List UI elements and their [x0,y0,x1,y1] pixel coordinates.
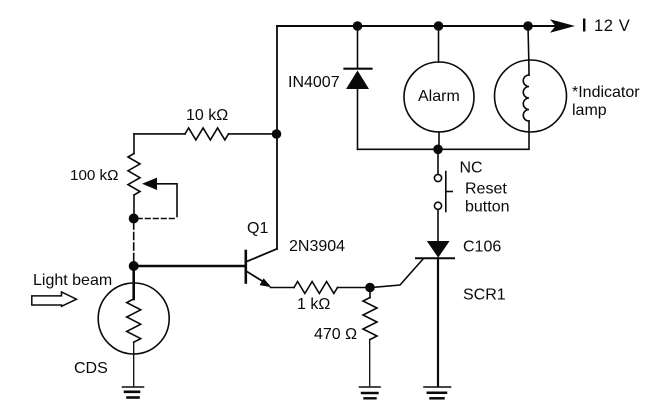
indicator lamp L1 (circle with filament coil) [495,26,641,149]
node junction 10k-collector [272,129,282,139]
node junction 1k-470-gate [365,283,375,293]
node junction rail-diode [353,21,363,31]
alarm device (circle) [404,26,474,149]
svg-text:470 Ω: 470 Ω [314,326,357,343]
svg-text:NC: NC [460,160,483,177]
svg-text:10 kΩ: 10 kΩ [186,107,228,124]
wire pot to base node [133,222,135,262]
reset button S1 (NC pushbutton) [434,149,509,241]
svg-text:IN4007: IN4007 [288,74,340,91]
svg-text:12 V: 12 V [594,17,630,35]
svg-text:Reset: Reset [465,181,507,198]
svg-text:lamp: lamp [572,102,607,119]
svg-text:Alarm: Alarm [418,88,460,105]
node junction pot wiper [129,214,139,224]
wire bottom bus diode/alarm/lamp [358,148,529,150]
svg-text:Light beam: Light beam [33,272,112,289]
resistor R3 1 kOhm [294,282,370,314]
ground (470 ohm) [360,387,381,398]
photocell CDS [74,266,169,386]
resistor R4 470 Ohm [314,288,377,386]
diode D1 IN4007 [288,26,372,149]
node junction rail-lamp [523,21,533,31]
svg-text:SCR1: SCR1 [463,287,506,304]
+12 V supply arrow [550,19,575,33]
ground (SCR cathode) [424,387,451,398]
ground (CDS) [123,387,144,398]
wire base node to Q1 base [134,265,245,267]
wire left vertical feed from rail to Q1 collector [276,26,278,249]
SCR1 C106 thyristor [374,239,505,386]
svg-text:Q1: Q1 [247,220,268,237]
svg-text:1 kΩ: 1 kΩ [297,296,330,313]
svg-text:*Indicator: *Indicator [572,84,640,101]
svg-text:C106: C106 [463,239,501,256]
node junction bus-reset [433,145,443,155]
node +12V label [583,17,630,35]
potentiometer R2 100 kOhm [70,134,177,219]
node junction base-CDS [129,261,139,271]
transistor Q1 2N3904 [246,220,345,288]
wire +12V top rail [277,25,560,27]
resistor R1 10 kOhm [134,107,277,140]
svg-text:100 kΩ: 100 kΩ [70,167,119,184]
svg-text:button: button [465,199,509,216]
light beam label and arrow [32,272,112,306]
svg-text:2N3904: 2N3904 [289,238,345,255]
node junction rail-alarm [434,21,444,31]
svg-text:CDS: CDS [74,360,108,377]
